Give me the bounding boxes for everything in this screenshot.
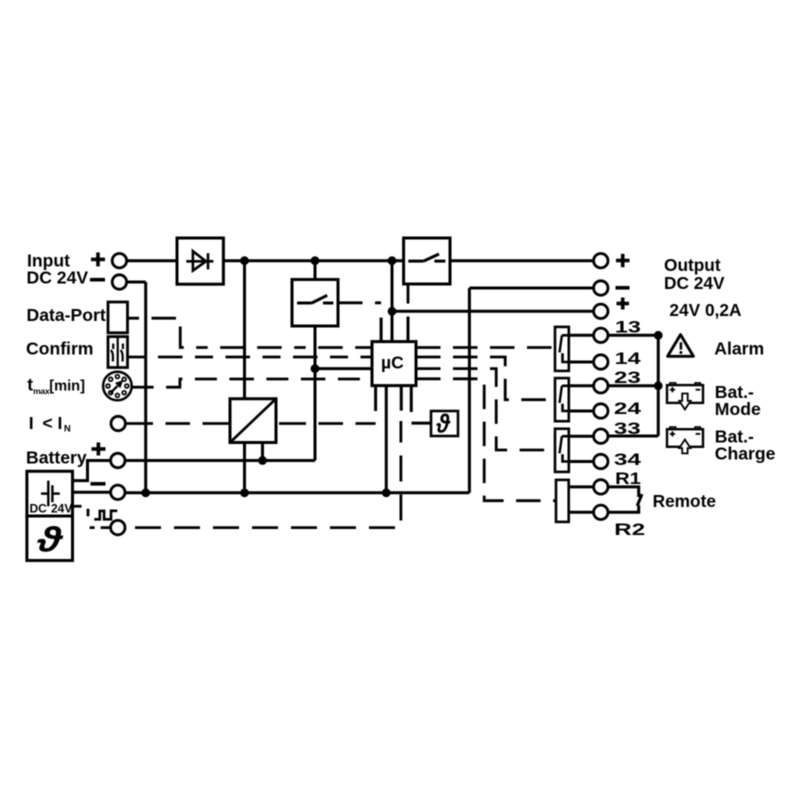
terminal input plus [112,254,126,268]
battery minus sign [91,482,106,486]
timer pulse signal symbol [94,511,117,520]
switch S2 battery disconnect [292,280,338,327]
terminal output plus [594,254,608,268]
svg-text:DC 24V: DC 24V [664,273,725,293]
svg-text:ϑ: ϑ [36,521,64,560]
svg-text:34: 34 [614,451,642,469]
wire output minus vertical [468,288,471,493]
wire vertical plus-bus into S2 top [314,261,317,280]
wire uC to temperature sensor U3 [412,422,432,425]
wire vertical plus-bus to DC/DC converter [243,261,246,493]
terminal R2 [594,505,608,519]
svg-text:24V 0,2A: 24V 0,2A [669,300,742,320]
wire S1 to output plus terminal [450,259,593,262]
wire node A vertical to uC top [391,261,394,342]
wire terminal 33 to alarm bus [607,435,658,438]
external remote switch lever [637,494,642,506]
junction node alarm bus 13 [654,331,663,340]
dashed signal tmax to uC [132,379,372,387]
alarm warning triangle [668,335,694,357]
wire input minus vertical bus [144,282,147,493]
dashed control S1 from uC [407,284,410,318]
wire battery box to minus terminal [73,491,111,494]
wire input minus stub [126,281,146,284]
wire battery box to plus terminal [73,461,111,481]
junction node plus bus and S2 [311,256,320,265]
output plus sign [616,259,630,263]
junction node alarm bus 23 [654,381,663,390]
wire uC top pin 3 stub [407,317,410,342]
battery mode icon discharge [667,383,703,410]
battery temperature sensor theta box [27,516,73,561]
wire 24V 0,2A output [392,310,593,313]
terminal 14 [594,355,608,369]
dashed signal I less In to uC [126,422,376,425]
svg-text:Confirm: Confirm [26,338,93,358]
terminal timer input [111,520,125,534]
terminal 34 [594,454,608,468]
wire plus bus diode to switch S1 [223,259,403,262]
dashed signal Confirm to uC [128,356,373,359]
wire remote box to terminal R2 [569,511,593,514]
junction node minus bus input [141,488,150,497]
junction node 24V 0,2A tap [388,307,397,316]
wire external remote switch to terminal R2 [607,505,639,512]
svg-text:R1: R1 [615,470,641,488]
battery accumulator DC 24V [27,471,73,516]
dashed signal battery temperature to timer input [73,506,111,527]
wire relay K1 to terminal 14 [563,361,594,364]
output minus sign [616,286,630,290]
terminal 13 [594,328,608,342]
wire uC bottom pin 2 to minus bus [385,386,388,493]
svg-text:Data-Port: Data-Port [27,305,106,325]
wire terminal 13 to alarm bus [607,334,658,337]
wire relay K3 to terminal 33 [562,435,593,438]
svg-text:DC: DC [30,502,48,516]
wire S2 bottom to battery plus rail [314,326,317,461]
svg-text:24V: 24V [51,502,72,516]
relay contact K2 23-24 [555,378,569,421]
wire battery plus rail [125,459,315,462]
dashed control S2 from uC [338,301,381,304]
wire DC/DC bottom pin to battery plus [261,443,264,461]
svg-text:Alarm: Alarm [714,339,764,359]
svg-text:Remote: Remote [653,491,717,511]
junction node plus bus and uC supply [388,256,397,265]
terminal 23 [594,379,608,393]
output 24V plus sign [617,302,630,306]
wire relay K2 to terminal 23 [562,384,593,387]
terminal I less In [111,416,125,430]
svg-text:33: 33 [614,420,641,438]
terminal output 24V 0,2A [594,304,608,318]
wire terminal 23 to alarm bus [607,384,658,387]
remote input box [556,480,569,522]
junction node battery sense [311,364,320,373]
junction node minus bus uC [382,488,391,497]
terminal battery plus [111,453,125,467]
wire terminal R1 to external remote switch [607,487,639,497]
Confirm button module [108,337,128,368]
dashed control uC to relay K1 [416,346,555,349]
svg-text:R2: R2 [614,521,645,539]
dashed signal timer input to uC bottom [125,421,401,528]
wire alarm bus vertical [657,335,660,436]
tmax rotary selector [103,372,132,401]
wire relay K1 to terminal 13 [562,334,593,337]
battery charge icon [667,427,703,453]
wire uC bottom pin 4 stub [410,386,413,412]
terminal 33 [594,429,608,443]
svg-text:tmax[min]: tmax[min] [27,375,85,396]
input minus sign [90,278,105,282]
wire input plus to diode [126,259,177,262]
wire relay K2 to terminal 24 [563,410,594,413]
dashed control uC to remote box [416,379,556,501]
svg-text:Mode: Mode [715,399,761,419]
diode box D1 [177,238,223,284]
junction node minus bus DC/DC [240,488,249,497]
svg-text:13: 13 [615,319,641,337]
junction node battery plus DC/DC [258,456,267,465]
svg-text:I<IN: I<IN [29,413,71,435]
relay contact K1 13-14 [555,327,569,371]
op-amp U1 microcontroller uC [372,342,416,386]
terminal 24 [594,404,608,418]
svg-text:23: 23 [614,369,641,387]
wire remote box to terminal R1 [569,485,593,488]
wire uC bottom pin 3 stub [400,386,403,411]
wire uC bottom pin 1 stub [374,386,377,411]
svg-text:14: 14 [615,350,642,368]
wire relay K3 to terminal 34 [563,460,594,463]
svg-text:Charge: Charge [715,443,776,463]
temperature sensor U3 theta box [431,409,458,439]
dashed signal Data-Port to uC [128,318,373,347]
terminal output minus [594,281,608,295]
DC/DC converter U2 [230,399,276,443]
dashed control uC to relay K3 [416,369,555,450]
svg-text:ϑ: ϑ [436,409,451,439]
relay contact K3 33-34 [555,429,569,472]
svg-text:24: 24 [614,400,642,418]
input plus sign [91,258,105,262]
dashed control uC to relay K2 [416,357,555,400]
junction node plus bus and DC/DC [240,256,249,265]
terminal R1 [594,480,608,494]
wire uC top pin 1 stub [380,318,383,342]
svg-text:µC: µC [381,352,404,372]
svg-text:DC 24V: DC 24V [27,268,89,288]
switch S1 output disconnect [404,238,450,284]
terminal battery minus [111,485,125,499]
Data-Port module [108,302,128,333]
battery plus sign [92,447,106,451]
wire minus bus [125,491,469,494]
wire output minus horizontal [469,287,593,290]
svg-text:Battery: Battery [26,448,87,468]
terminal input minus [112,275,126,289]
wire battery sense to uC left [315,367,372,370]
